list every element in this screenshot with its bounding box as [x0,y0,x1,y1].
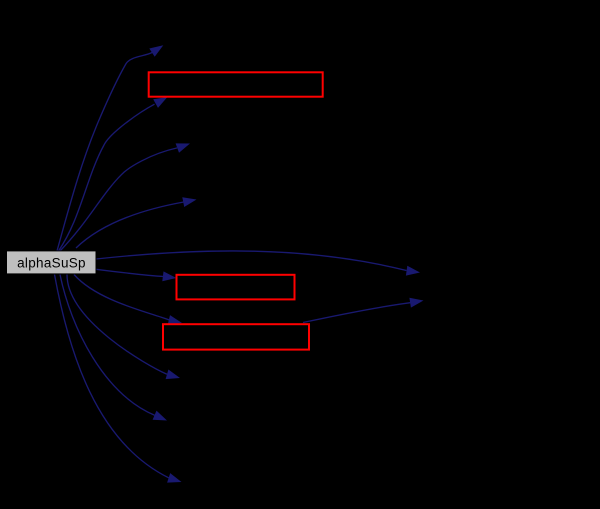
svg-text:alphaSuSp: alphaSuSp [17,255,86,270]
